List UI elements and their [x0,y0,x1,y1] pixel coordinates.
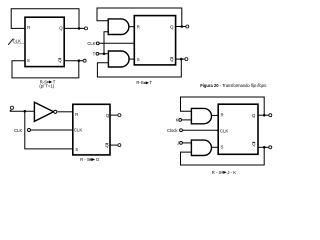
terminal Qbar circuit2 [185,58,188,61]
wire: feedback Qbar4 to G4 (bottom loop) [181,147,265,165]
svg-text:S: S [27,58,30,63]
wire: feedback Q to G1 (top loop) [97,8,182,27]
wire: feedback Q to R (top loop) [11,9,79,29]
node: junction on Q2 [181,25,184,28]
svg-text:Q: Q [59,25,63,30]
node: junction on Qbar2 [180,58,183,61]
AND gate G3 (upper) [191,108,211,123]
AND gate G4 (lower) [191,140,211,155]
wire: CLK to FF2 [99,42,134,44]
svg-text:J: J [177,141,179,146]
AND gate G1 (upper) [108,19,129,35]
svg-text:Clock: Clock [167,128,178,133]
flip-flop FF4 box [218,104,258,154]
svg-text:CLK: CLK [87,41,95,46]
wire: feedback Qbar to S (bottom loop) [12,61,79,78]
node: junction on Qbar [78,59,81,62]
flip-flop FF3 box [73,104,110,155]
wire: Q output to terminal [176,26,186,28]
terminal Qbar circuit3 [118,144,121,147]
wire: G2 output to S [129,58,134,60]
wire: K to G3 [182,119,192,121]
wire: Clock to FF4 [182,129,218,131]
svg-text:R - S: R - S [212,170,222,175]
wire: D down to S [25,112,73,149]
clock edge symbol CLK1 [8,39,13,45]
svg-text:R: R [137,24,140,29]
AND gate G2 (lower) [108,51,129,67]
svg-text:CLK: CLK [13,38,21,43]
terminal D [10,106,13,109]
svg-text:R: R [221,113,224,118]
svg-text:Q: Q [252,113,256,118]
svg-text:S: S [221,145,224,150]
flip-flop FF2 box [134,16,175,65]
flip-flop FF1 box [25,17,64,66]
wire: G4 output to S [212,146,219,148]
wire: T to G2 top input [99,53,109,55]
wire: D to inverter [11,110,35,112]
node: junction on Q [78,27,81,30]
wire: feedback Qbar to G2 (bottom loop) [97,59,181,77]
svg-text:T: T [93,52,96,57]
wire: inverter to R [58,111,73,113]
svg-text:(p/ T=1): (p/ T=1) [39,84,54,89]
terminal Q circuit1 [85,27,88,30]
wire: Qbar3 to terminal [110,144,118,146]
svg-text:R: R [75,112,78,117]
wire: Qbar4 to terminal [258,146,269,148]
wire: J to G4 [182,142,191,144]
wire: Qbar output to terminal [176,58,185,60]
terminal Qbar circuit4 [269,146,272,149]
svg-text:S: S [137,57,140,62]
node: junction on T [103,53,106,56]
wire: CLK to FF3 [31,129,73,131]
node: junction on Qbar4 [263,146,266,149]
wire: Q output to terminal [65,27,85,29]
svg-text:R: R [27,25,30,30]
wire: Q3 to terminal [110,114,118,116]
terminal Q circuit3 [118,114,121,117]
wire: Q4 to terminal [258,114,269,116]
inverter INV1 [34,102,53,121]
svg-text:CLK: CLK [74,128,82,133]
svg-text:T: T [150,80,153,85]
terminal Qbar circuit1 [83,59,86,62]
wire: Qbar output to terminal [65,60,84,62]
wire: G1 output to R [129,26,134,28]
wire: T up to G1 bottom input [104,32,108,54]
node: junction on Q4 [263,114,266,117]
node: junction on D [24,110,27,113]
svg-text:Figura 20 - Transformando flip: Figura 20 - Transformando flip-flops. [200,83,267,88]
wire: feedback Q4 to G3 (top loop) [181,97,265,115]
terminal Q circuit2 [186,25,189,28]
terminal Q circuit4 [269,114,272,117]
svg-text:CLK: CLK [220,128,228,133]
svg-text:CLK: CLK [14,128,22,133]
wire: G3 output to R [212,114,219,116]
svg-text:R - S: R - S [80,157,90,162]
svg-text:Q: Q [170,25,174,30]
svg-text:S: S [75,147,78,152]
svg-text:J - K: J - K [227,170,236,175]
svg-text:D: D [96,157,99,162]
svg-text:K: K [176,117,179,122]
svg-text:R-S: R-S [136,80,143,85]
